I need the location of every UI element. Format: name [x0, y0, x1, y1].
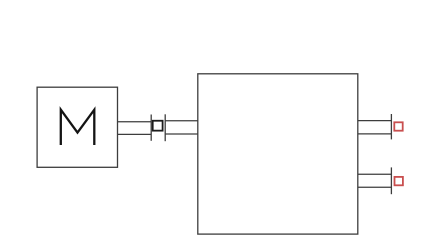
output flange lower: [390, 167, 392, 194]
motor block M1: [37, 87, 117, 167]
output flange upper: [390, 114, 392, 139]
shaft segment left (motor to coupling): [118, 122, 152, 135]
main block U1: [198, 74, 358, 234]
coupling element square: [153, 121, 163, 131]
motor letter M: [61, 110, 95, 145]
coupling flange right: [164, 114, 166, 141]
shaft segment right (coupling to block): [165, 121, 198, 134]
unconnected port marker lower (red): [395, 177, 403, 185]
coupling flange left: [150, 115, 152, 141]
output stub shaft upper: [358, 121, 392, 134]
output stub shaft lower: [358, 174, 392, 187]
unconnected port marker upper (red): [394, 122, 402, 130]
